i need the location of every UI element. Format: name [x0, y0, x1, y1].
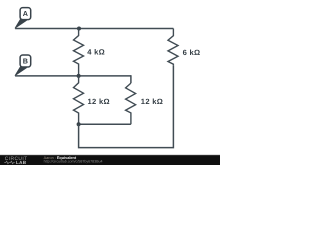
- svg-text:A: A: [23, 9, 28, 18]
- svg-text:12 kΩ: 12 kΩ: [141, 97, 163, 106]
- resistor R1 4 kOhm (between A rail and B rail): [74, 29, 84, 76]
- svg-text:6 kΩ: 6 kΩ: [183, 48, 201, 57]
- resistor R4 12 kOhm (right parallel): [126, 83, 136, 124]
- node label A (callout flag): [15, 8, 31, 29]
- resistor R2 6 kOhm (right branch): [168, 29, 178, 66]
- svg-text:B: B: [23, 57, 28, 66]
- node label B (callout flag): [15, 55, 31, 76]
- svg-text:4 kΩ: 4 kΩ: [87, 48, 105, 57]
- svg-text:LAB: LAB: [16, 160, 27, 165]
- junction dot: R3 bottom / bottom link: [77, 122, 81, 126]
- wire: top rail from node A to right branch: [15, 28, 173, 30]
- svg-text:12 kΩ: 12 kΩ: [88, 97, 110, 106]
- wire: B rail from node B to right 12k branch corner: [15, 75, 131, 77]
- wire: link R4 bottom to R3 bottom: [79, 123, 131, 125]
- watermark CircuitLab logo: [4, 156, 27, 165]
- junction dot: B rail / R1 bottom / R3 top: [77, 74, 81, 78]
- junction dot: top rail / R1 top: [77, 27, 81, 31]
- watermark bar background: [0, 155, 220, 165]
- resistor R3 12 kOhm (left parallel): [74, 76, 84, 124]
- svg-text:http://circuitlab.com/c/587by6: http://circuitlab.com/c/587by6783Bu4: [44, 159, 103, 163]
- wire: bottom return (down, right, up to R2 bottom): [79, 66, 174, 148]
- wire: corner from B rail down to R4 top: [130, 75, 132, 83]
